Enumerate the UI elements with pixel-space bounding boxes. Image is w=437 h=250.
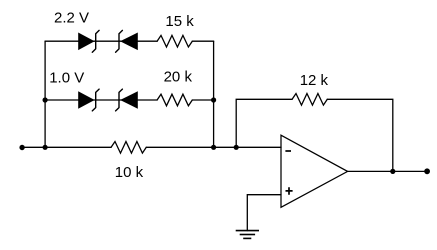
resistor 12 k zigzag [292,94,327,106]
wire bottom branch left [22,146,111,148]
resistor 15 k zigzag [157,35,192,47]
op-amp inverting input minus sign [285,150,291,152]
label 20 k [164,68,193,85]
node junction left bus / middle branch [43,97,48,102]
node junction feedback tap [234,145,239,150]
label 2.2 V [54,9,89,26]
svg-text:10 k: 10 k [115,164,144,181]
wire feedback top right and down to output [327,99,393,171]
node junction right bus / middle branch [211,97,216,102]
wire noninverting input to ground [247,195,281,231]
node input terminal (left) [19,145,24,150]
svg-text:1.0 V: 1.0 V [49,70,84,87]
svg-text:2.2 V: 2.2 V [54,9,89,26]
resistor 10 k zigzag [111,142,146,154]
resistor 20 k zigzag [157,94,192,106]
svg-text:20 k: 20 k [164,68,193,85]
label 15 k [165,13,194,30]
wire op-amp output [348,170,428,172]
node junction left bus / bottom branch [43,145,48,150]
zener diode D2 (2.2 V pair, right) [116,30,138,52]
wire bottom branch right to op-amp [146,146,281,148]
zener diode D3 (1.0 V pair, left) [78,89,99,111]
node junction right bus / bottom branch [211,145,216,150]
wire left bus [44,41,46,147]
svg-text:15 k: 15 k [165,13,194,30]
ground [236,231,259,239]
wire top branch right [192,40,213,42]
label 10 k [115,164,144,181]
svg-text:12 k: 12 k [300,72,329,89]
wire top branch left [45,40,157,42]
label 1.0 V [49,70,84,87]
label 12 k [300,72,329,89]
node output terminal (right) [424,168,430,174]
wire right bus [213,41,215,147]
wire middle branch right [192,99,213,101]
node junction feedback / output [390,169,395,174]
wire feedback riser [236,99,292,147]
wire middle branch left [45,99,157,101]
op-amp U1 triangle [281,135,348,207]
zener diode D1 (2.2 V pair, left) [78,30,99,52]
op-amp noninverting input plus sign [286,187,293,195]
zener diode D4 (1.0 V pair, right) [116,89,138,111]
